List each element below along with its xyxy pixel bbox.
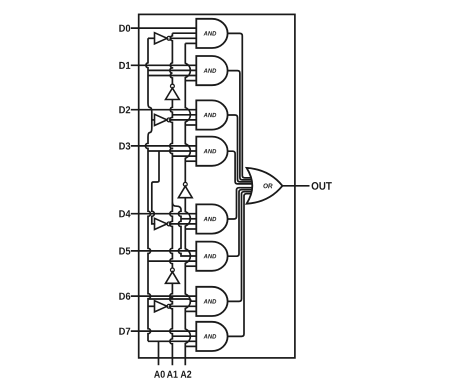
wire U6 pin 4 tap [185,265,196,267]
wire A0 entry / U8 pin 3 line [148,340,196,342]
wire U5 pin 4 tap [185,228,196,230]
wire U2 output to OR pin 2 [228,71,252,180]
wire U4 output to OR pin 4 [228,151,253,184]
input D1 label [119,62,130,69]
wire A0 riser stub [158,341,160,365]
inverter U11 (A0 inverter, feeds U3 pin 3) [155,114,171,125]
wire A1 column upper segment [170,33,173,84]
or-gate U9 [247,168,283,204]
wire U6 pin 3 line [148,260,196,262]
wire D3 to U4 pin 1 [131,145,197,147]
input D6 label [119,293,130,300]
select input A2 label [181,371,192,378]
wire D1 to U2 pin 1 [131,64,197,66]
wire U2 pin 4 tap [185,80,196,82]
wire U10 output to U1 pin 3 [171,37,197,39]
node OUT label [312,182,332,190]
and-gate U3 (D2 term) [196,100,227,129]
wire U4 pin 4 tap [185,160,196,162]
wire U4 pin 2 line [148,150,196,152]
wire A0 left bus column [145,38,151,341]
inverter U12 (A0 inverter, feeds U5 pin 3) [155,218,171,229]
wire D4 to U5 pin 1 [131,213,197,215]
input D4 label [119,210,130,217]
wire U13 input stub [148,305,155,307]
wire A1-branch column 181 [172,203,196,256]
input D7 label [119,328,130,335]
wire U3 output to OR pin 3 [228,115,253,182]
inverter U13 (A0 inverter, feeds U7 pin 3) [155,301,171,312]
inverter U10 (A0 inverter, feeds U1 pin 3) [155,33,171,44]
wire U2 pin 3 line [148,75,196,77]
wire U13 output to U7 pin 3 [171,305,197,307]
wire U5 output to OR pin 5 [228,188,253,219]
input D3 label [119,142,130,149]
wire U1 output to OR pin 1 [228,33,252,178]
and-gate U6 (D5 term) [196,242,227,271]
and-gate U1 (D0 term) [196,19,227,48]
wire U6 output to OR pin 6 [228,190,253,257]
wire U7 pin 2 line [148,299,196,301]
wire U11 input stub [152,119,155,121]
wire U5 pin 2 tap [181,218,196,220]
wire U11 output to U3 pin 3 [171,119,197,121]
wire D7 to U8 pin 1 [131,330,197,332]
wire A1 column lower segment [170,283,173,365]
inverter U15 (A2 inverter, middle) [178,182,192,197]
input D2 label [119,106,130,113]
wire U1 pin 4 tap [185,42,196,44]
wire U2 pin 2 line [148,69,196,71]
wire A1 column middle segment [170,100,173,268]
wire U10 input stub [148,37,155,39]
and-gate U8 (D7 term) [196,322,227,351]
inverter U14 (A1 inverter, upper) [166,84,180,99]
wire U3 pin 4 tap [185,124,196,126]
wire U4-U12 zig column [152,151,159,224]
select input A0 label [154,371,165,378]
wire A2 column lower segment [185,198,190,366]
and-gate U4 (D3 term) [196,137,227,166]
inverter U16 (A1 inverter, lower) [166,268,180,283]
wire U7 pin 4 tap [185,310,196,312]
wire U12 output to U5 pin 3 [171,223,197,225]
wire A2 column upper segment [185,43,190,182]
wire U7 output to OR pin 7 [228,192,252,302]
wire U8 pin 4 tap [185,345,196,347]
input D0 label [119,25,130,32]
wire D5 to U6 pin 1 [131,250,197,252]
wire D6 to U7 pin 1 [131,295,197,297]
wire D0 to U1 pin 1 [131,27,197,29]
wire U1 pin 2 tap [172,32,196,34]
and-gate U5 (D4 term) [196,204,227,233]
wire U8 output to OR pin 8 [228,194,252,337]
input D5 label [119,248,130,255]
wire U4 pin 3 tap [172,155,196,157]
select input A1 label [167,371,178,378]
wire U3 pin 2 tap [172,114,196,116]
wire D2 to U3 pin 1 [131,109,197,111]
wire U8 pin 2 tap [172,335,196,337]
and-gate U2 (D1 term) [196,56,227,85]
wire OR output to OUT [282,185,309,187]
IC boundary box [139,14,295,358]
and-gate U7 (D6 term) [196,287,227,316]
